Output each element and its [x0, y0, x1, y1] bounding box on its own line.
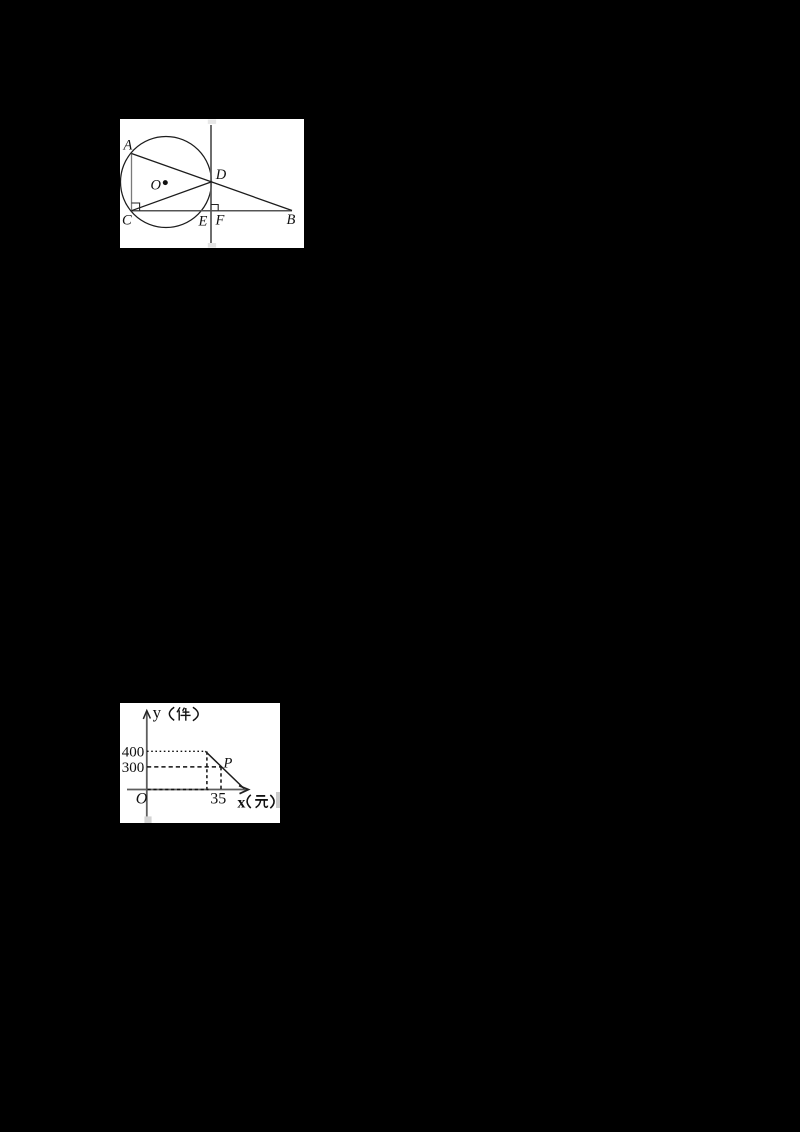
y axis arrowhead [143, 711, 150, 719]
x axis arrowhead [239, 786, 249, 794]
figure 2: price/quantity graph [120, 703, 280, 823]
fullwidth close paren of y label [193, 707, 198, 720]
dotted vertical drop from (400 corner) [206, 752, 208, 790]
dashed overlay segment on x axis from origin [148, 789, 209, 791]
svg-text:D: D [215, 167, 227, 183]
wire ADB line [132, 154, 293, 211]
white panel [120, 119, 304, 248]
dashed line at y=300 [147, 766, 221, 768]
svg-text:F: F [215, 213, 225, 229]
wire CB horizontal line [132, 210, 293, 212]
svg-text:400: 400 [122, 744, 145, 760]
handle top of vertical line [208, 120, 216, 124]
y axis [146, 712, 148, 818]
x axis [127, 789, 247, 791]
handle bottom of vertical line [208, 243, 216, 248]
handle right edge [276, 792, 280, 808]
wire CD chord [132, 182, 212, 211]
svg-text:O: O [136, 791, 148, 808]
dashed vertical drop from P [220, 767, 222, 790]
fullwidth close paren of x label [270, 795, 274, 808]
right angle marker at F [211, 205, 218, 211]
fullwidth open paren of x label [247, 795, 251, 808]
svg-text:35: 35 [210, 790, 226, 807]
svg-text:E: E [198, 214, 208, 230]
handle bottom of y axis [144, 816, 151, 823]
svg-text:P: P [223, 756, 233, 772]
svg-text:C: C [122, 213, 132, 229]
figure 1: circle geometry diagram [120, 119, 304, 248]
right angle marker at C [132, 203, 140, 211]
center dot O [163, 180, 168, 185]
wire AC vertical chord [131, 154, 133, 211]
svg-text:B: B [287, 212, 296, 228]
circle O [121, 137, 212, 228]
svg-text:O: O [151, 178, 162, 194]
sloped demand segment through P [205, 751, 244, 788]
svg-text:x: x [237, 795, 245, 812]
fullwidth open paren of y label [169, 707, 174, 720]
svg-text:y: y [153, 703, 162, 722]
CJK char yuan (元) [255, 796, 268, 808]
svg-text:A: A [123, 138, 133, 154]
svg-text:300: 300 [122, 760, 145, 776]
dotted line at y=400 [147, 750, 206, 752]
vertical line through D and F [210, 125, 212, 243]
white panel [120, 703, 280, 823]
CJK char jian (件) [177, 707, 191, 720]
